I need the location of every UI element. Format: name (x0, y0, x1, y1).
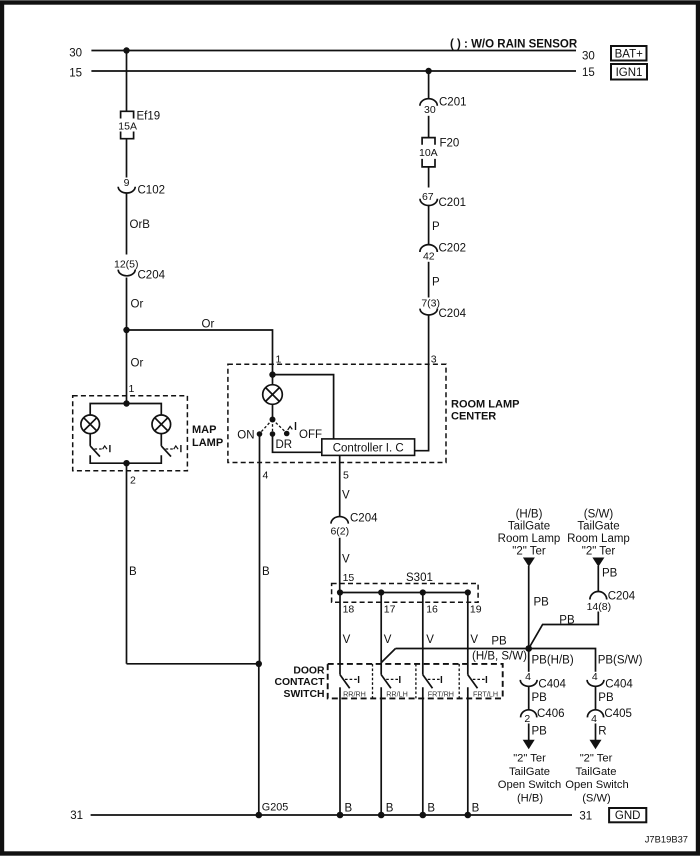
svg-text:B: B (427, 802, 435, 814)
svg-text:PB(H/B): PB(H/B) (532, 655, 574, 667)
svg-text:16: 16 (426, 604, 438, 616)
svg-text:B: B (386, 802, 394, 814)
svg-text:Room Lamp: Room Lamp (498, 533, 561, 545)
junction on bus 15 (425, 68, 431, 74)
svg-text:30: 30 (69, 48, 82, 60)
wire PB jog to junction (529, 612, 599, 649)
svg-text:5: 5 (343, 470, 349, 482)
svg-text:15: 15 (343, 572, 355, 584)
wire fuse to connector C102 (126, 139, 128, 178)
wire 4 ON to splice (259, 434, 261, 664)
svg-text:ON: ON (237, 430, 254, 442)
splice S301 box (332, 584, 479, 603)
lamp left (map) (81, 415, 100, 434)
svg-text:LAMP: LAMP (192, 437, 223, 449)
svg-text:C201: C201 (439, 97, 467, 109)
wire B map lamp to splice (126, 463, 128, 664)
svg-text:42: 42 (423, 251, 435, 263)
wire bus15 to connector C201 (428, 71, 430, 99)
svg-text:CENTER: CENTER (451, 411, 496, 423)
svg-text:P: P (432, 221, 440, 233)
wire PB(S/W) branch (529, 649, 596, 672)
svg-text:V: V (426, 634, 434, 646)
svg-text:TailGate: TailGate (508, 521, 550, 533)
svg-text:B: B (262, 566, 270, 578)
wire FRT/LH to ground bus (467, 687, 469, 815)
svg-text:1: 1 (276, 354, 282, 366)
svg-text:(H/B): (H/B) (516, 509, 543, 521)
wire PB (528, 686, 530, 710)
wire bus30 to fuse Ef19 (126, 51, 128, 112)
fuse F20 10A (422, 138, 435, 145)
svg-text:Room Lamp: Room Lamp (567, 533, 630, 545)
selector switch pivot (270, 417, 276, 423)
wire V to splice S301 (339, 538, 341, 593)
svg-text:PB: PB (534, 597, 550, 609)
svg-text:PB: PB (532, 726, 548, 738)
wire RR/RH to ground bus (339, 687, 341, 815)
terminal box IGN1 (611, 64, 647, 80)
junction B FRT/LH (465, 812, 472, 819)
wire PB (595, 686, 597, 710)
svg-text:12(5): 12(5) (114, 259, 139, 271)
wire P (428, 262, 430, 298)
svg-text:V: V (343, 634, 351, 646)
junction node Or (123, 327, 129, 333)
svg-text:2: 2 (524, 713, 530, 725)
wire PB to arrow (528, 724, 530, 741)
svg-text:4: 4 (525, 671, 531, 683)
svg-text:ROOM LAMP: ROOM LAMP (451, 399, 519, 411)
terminal box BAT+ (611, 46, 647, 61)
switch FRT/LH (468, 675, 478, 689)
switch FRT/RH (423, 675, 433, 689)
svg-text:30: 30 (424, 104, 436, 116)
wire 4/B down to ground bus (258, 664, 260, 815)
wire R to arrow (595, 724, 597, 741)
svg-text:4: 4 (263, 470, 269, 482)
svg-text:RR/RH: RR/RH (343, 689, 366, 698)
svg-text:30: 30 (582, 51, 595, 63)
junction S301-19 (465, 589, 471, 595)
svg-text:(H/B): (H/B) (517, 793, 543, 805)
svg-text:( ) : W/O RAIN SENSOR: ( ) : W/O RAIN SENSOR (450, 39, 578, 51)
wire DR to controller (273, 434, 322, 452)
junction B RR/RH (337, 812, 344, 819)
svg-text:"2" Ter: "2" Ter (512, 546, 546, 558)
svg-text:SWITCH: SWITCH (284, 689, 325, 700)
svg-text:PB: PB (532, 692, 548, 704)
switch under right lamp (160, 434, 162, 446)
svg-text:C204: C204 (608, 591, 636, 603)
lamp right (map) (152, 415, 171, 434)
wire V 17 down (380, 593, 382, 675)
svg-text:14(8): 14(8) (587, 601, 612, 613)
arrow to tailgate open switch H/B (523, 740, 535, 750)
wire FRT/RH to ground bus (422, 687, 424, 815)
svg-text:TailGate: TailGate (509, 766, 550, 778)
wire map lamp top rail (90, 404, 161, 416)
wire to connector C201 pin 67 (428, 167, 430, 188)
junction S301-17 (378, 589, 384, 595)
connector C204 pin 6(2) (331, 517, 348, 524)
svg-text:V: V (342, 554, 350, 566)
svg-text:"2" Ter: "2" Ter (580, 753, 613, 765)
svg-text:C202: C202 (439, 243, 467, 255)
svg-text:OFF: OFF (299, 429, 322, 441)
svg-text:V: V (384, 634, 392, 646)
svg-text:G205: G205 (262, 802, 288, 814)
svg-text:"2" Ter: "2" Ter (513, 753, 546, 765)
svg-text:17: 17 (384, 604, 396, 616)
fuse Ef19 15A (121, 111, 134, 118)
svg-text:19: 19 (470, 604, 482, 616)
svg-text:Open Switch: Open Switch (498, 779, 561, 791)
svg-text:67: 67 (422, 191, 434, 203)
wire V 16 down (422, 593, 424, 675)
wire to G205 branch (127, 663, 259, 665)
contact ON (257, 431, 263, 437)
svg-text:Or: Or (131, 299, 144, 311)
svg-text:PB: PB (491, 635, 507, 647)
connector C202 pin 42 (420, 245, 437, 252)
arrow to tailgate open switch S/W (590, 740, 602, 750)
junction B RR/LH (378, 812, 385, 819)
svg-text:9: 9 (124, 177, 130, 189)
arrow from tailgate room lamp H/B (523, 558, 535, 567)
svg-text:1: 1 (129, 383, 135, 395)
svg-text:15A: 15A (118, 120, 137, 132)
contact DR (270, 431, 276, 437)
connector C405 pin 4 (587, 710, 603, 718)
wire RR/LH to ground bus (380, 687, 382, 815)
bus 31 (GND) (91, 814, 572, 816)
svg-text:(S/W): (S/W) (584, 509, 614, 521)
svg-text:PB: PB (602, 568, 618, 580)
splice bus wire (340, 592, 468, 594)
contact OFF (284, 431, 290, 437)
svg-text:C406: C406 (537, 708, 565, 720)
svg-text:Or: Or (202, 319, 215, 331)
svg-text:GND: GND (615, 810, 641, 822)
svg-text:B: B (129, 566, 137, 578)
svg-text:C404: C404 (538, 679, 566, 691)
svg-text:31: 31 (70, 810, 83, 822)
map lamp assembly box (73, 396, 188, 471)
svg-text:C405: C405 (604, 708, 632, 720)
svg-text:B: B (345, 802, 353, 814)
wire Or branch to room lamp center (127, 330, 273, 375)
room lamp center assembly box (228, 364, 446, 462)
svg-text:Or: Or (131, 358, 144, 370)
wire PB callout from wire 17 (381, 649, 395, 663)
svg-text:15: 15 (582, 67, 595, 79)
svg-text:4: 4 (591, 713, 597, 725)
wire map lamp bottom rail node 2 (90, 455, 161, 463)
svg-text:C404: C404 (605, 679, 633, 691)
svg-text:18: 18 (343, 604, 355, 616)
svg-text:RR/LH: RR/LH (386, 689, 408, 698)
door contact switch assembly box (328, 664, 503, 699)
junction G205 (255, 812, 262, 819)
wire PB (H/B) (528, 566, 530, 649)
controller IC box (322, 439, 415, 456)
svg-text:C204: C204 (138, 270, 166, 282)
wire 3 to controller (415, 315, 429, 451)
svg-text:PB: PB (598, 692, 614, 704)
svg-text:P: P (432, 277, 440, 289)
wire V 18 down (339, 593, 341, 675)
switch RR/RH (340, 675, 350, 689)
junction on bus 30 (123, 47, 129, 53)
svg-text:C102: C102 (138, 185, 166, 197)
wire PB (S/W) (597, 566, 599, 591)
junction S301-16 (420, 589, 426, 595)
svg-text:FRT/LH: FRT/LH (473, 689, 498, 698)
junction B FRT/RH (420, 812, 427, 819)
svg-text:TailGate: TailGate (577, 521, 619, 533)
svg-text:Open Switch: Open Switch (565, 779, 628, 791)
svg-text:C204: C204 (350, 513, 378, 525)
bus 15 (IGN1) (91, 70, 576, 72)
svg-text:6(2): 6(2) (330, 525, 349, 537)
svg-text:2: 2 (130, 475, 136, 487)
connector C406 pin 2 (521, 710, 537, 718)
svg-text:J7B19B37: J7B19B37 (645, 834, 688, 845)
svg-text:10A: 10A (419, 147, 438, 159)
svg-text:MAP: MAP (192, 424, 216, 436)
room lamp bulb (272, 375, 274, 385)
arrow from tailgate room lamp S/W (592, 558, 604, 567)
svg-text:3: 3 (431, 354, 437, 366)
connector C204 pin 14(8) (590, 592, 607, 600)
svg-text:B: B (472, 802, 480, 814)
svg-text:(H/B, S/W): (H/B, S/W) (472, 651, 527, 663)
junction wire4 meets map lamp wire (256, 661, 262, 667)
svg-text:7(3): 7(3) (421, 297, 440, 309)
wire node1 to controller top (273, 375, 334, 439)
svg-text:Controller I. C: Controller I. C (333, 442, 404, 454)
connector C201 pin 30 (420, 99, 437, 106)
wire P (428, 206, 430, 245)
svg-text:"2" Ter: "2" Ter (582, 546, 616, 558)
junction S301-18 (337, 589, 343, 595)
svg-text:FRT/RH: FRT/RH (428, 689, 454, 698)
wire Or to junction (126, 278, 128, 404)
junction PB (525, 645, 532, 652)
junction map lamp node 1 (123, 400, 129, 406)
svg-text:4: 4 (592, 671, 598, 683)
switch RR/LH (381, 675, 391, 689)
svg-text:R: R (598, 726, 606, 738)
svg-text:IGN1: IGN1 (616, 67, 643, 79)
svg-text:PB(S/W): PB(S/W) (598, 655, 643, 667)
svg-text:Ef19: Ef19 (137, 111, 161, 123)
svg-text:C201: C201 (439, 197, 467, 209)
junction room lamp node 1 (269, 371, 275, 377)
svg-text:DOOR: DOOR (293, 665, 325, 676)
svg-text:31: 31 (579, 810, 592, 822)
svg-text:TailGate: TailGate (575, 766, 616, 778)
svg-text:OrB: OrB (130, 219, 151, 231)
svg-text:DR: DR (276, 439, 293, 451)
svg-text:(S/W): (S/W) (582, 793, 611, 805)
wire 5 from controller (339, 455, 341, 516)
switch under left lamp (89, 434, 91, 446)
wire to fuse F20 (428, 116, 430, 138)
svg-text:CONTACT: CONTACT (274, 677, 325, 688)
svg-text:V: V (342, 490, 350, 502)
terminal box GND (609, 808, 646, 822)
bus 30 (BAT+) (91, 50, 576, 52)
svg-text:BAT+: BAT+ (615, 48, 644, 60)
svg-text:15: 15 (69, 68, 82, 80)
svg-text:C204: C204 (439, 308, 467, 320)
svg-text:PB: PB (559, 614, 575, 626)
svg-text:F20: F20 (440, 138, 460, 150)
svg-text:S301: S301 (406, 572, 433, 584)
wire OrB (126, 193, 128, 255)
wire V 19 down (467, 593, 469, 675)
wire PB(H/B) down (528, 649, 530, 672)
svg-text:V: V (470, 634, 478, 646)
